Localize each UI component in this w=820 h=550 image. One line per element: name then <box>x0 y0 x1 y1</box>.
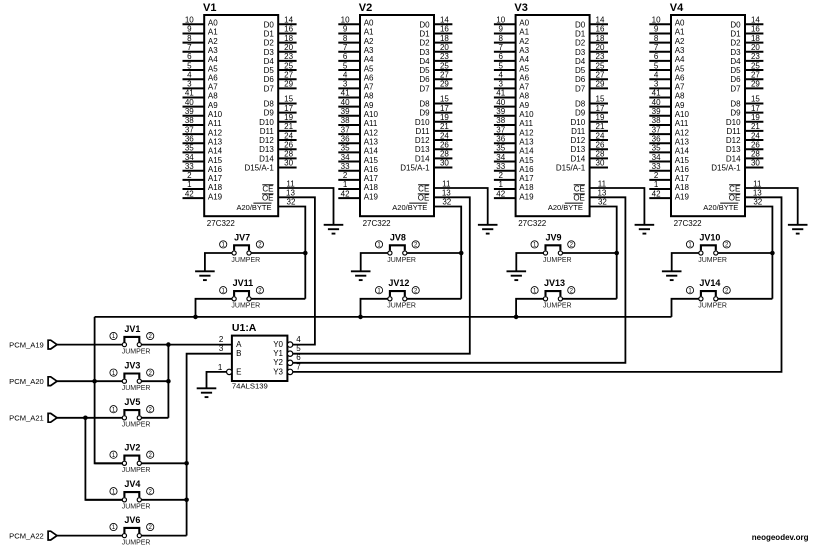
svg-text:V3: V3 <box>514 2 527 14</box>
svg-text:JV9: JV9 <box>546 232 562 242</box>
input port PCM_A20 <box>48 377 57 386</box>
wire JV2 to B-net vertical <box>141 462 187 464</box>
ground at E of U1 <box>197 388 217 397</box>
wire A-net vertical JV1/JV3/JV5 <box>167 345 169 418</box>
input port PCM_A19 <box>48 340 57 349</box>
wire A20/BYTE pin32 of V4 down to jumpers <box>745 207 772 299</box>
jumper JV4 <box>110 488 154 511</box>
wire A20/BYTE pin32 of V1 down to jumpers <box>278 207 305 299</box>
jumper JV11 <box>220 287 264 310</box>
EPROM V4 27C322 <box>649 2 763 228</box>
junction node bus / JV12 drop <box>358 315 363 320</box>
svg-text:E: E <box>236 367 241 376</box>
jumper JV14 <box>686 287 730 310</box>
svg-text:PCM_A19: PCM_A19 <box>9 340 44 349</box>
EPROM V2 27C322 <box>338 2 452 228</box>
svg-text:JV11: JV11 <box>233 278 254 288</box>
wire input to JV6 <box>57 535 123 537</box>
wire Y1 of U1 to OE pin13 of V2 <box>293 197 470 353</box>
svg-text:JV3: JV3 <box>124 361 140 371</box>
svg-text:JV2: JV2 <box>124 443 140 453</box>
junction node bus / JV11 drop <box>193 315 198 320</box>
wire CE pin11 of V4 to ground <box>745 188 798 225</box>
junction node pin32 V2 / jumper row <box>459 251 464 256</box>
wire PCM_A21 vertical to JV4 <box>85 499 122 501</box>
svg-text:JV14: JV14 <box>699 278 720 288</box>
svg-text:5: 5 <box>296 344 301 353</box>
wire bus down PCM_A20 to JV2 <box>95 317 123 463</box>
junction node A-net / JV3 <box>166 379 171 384</box>
svg-text:Y3: Y3 <box>273 367 283 376</box>
svg-text:JV7: JV7 <box>234 232 250 242</box>
junction node B-net / JV2 <box>184 461 189 466</box>
jumper JV3 <box>110 369 154 392</box>
svg-text:B: B <box>236 349 241 358</box>
svg-text:JV4: JV4 <box>124 479 140 489</box>
wire CE pin11 of V2 to ground <box>434 188 488 225</box>
ground at JV10 <box>662 271 682 280</box>
wire JV4 to B-net vertical <box>141 499 187 501</box>
wire JV12 right pin to pin32 vertical <box>406 298 461 300</box>
wire JV13 right pin to pin32 vertical <box>562 298 617 300</box>
ground at CE of V3 <box>635 225 655 234</box>
wire JV14 right pin to pin32 vertical <box>717 298 772 300</box>
junction node PCM_A21 / JV4 vertical <box>83 416 88 421</box>
wire JV9 right pin to pin32 vertical <box>562 252 617 254</box>
svg-text:neogeodev.org: neogeodev.org <box>752 533 809 542</box>
wire JV3 to A-net vertical <box>141 380 169 382</box>
svg-text:V2: V2 <box>359 2 372 14</box>
EPROM V1 27C322 <box>183 2 297 228</box>
svg-text:JV5: JV5 <box>124 397 140 407</box>
wire JV10 right pin to pin32 vertical <box>717 252 772 254</box>
wire A20/BYTE pin32 of V2 down to jumpers <box>434 207 461 299</box>
junction node pin32 V1 / jumper row <box>303 251 308 256</box>
svg-text:Y0: Y0 <box>273 340 283 349</box>
EPROM V3 27C322 <box>494 2 608 228</box>
wire PCM_A20 vertical to JV2 <box>95 462 123 464</box>
wire Y3 of U1 to OE pin13 of V4 <box>293 197 782 372</box>
jumper JV9 <box>531 241 575 264</box>
svg-text:PCM_A21: PCM_A21 <box>9 414 44 423</box>
svg-text:JV1: JV1 <box>124 324 140 334</box>
svg-text:7: 7 <box>296 362 301 371</box>
svg-text:Y2: Y2 <box>273 358 283 367</box>
ground at JV9 <box>507 271 527 280</box>
wire Y0 of U1 to OE pin13 of V1 <box>278 197 315 344</box>
wire JV5 to A-net vertical <box>141 417 169 419</box>
wire PCM_A21 down to JV4 <box>85 418 122 500</box>
wire PCM_A20 horizontal bus to JV11-JV14 <box>95 316 672 318</box>
junction node pin32 V4 / jumper row <box>770 251 775 256</box>
svg-text:JV12: JV12 <box>388 278 409 288</box>
jumper JV1 <box>110 332 154 355</box>
wire CE pin11 of V3 to ground <box>590 188 645 225</box>
jumper JV2 <box>110 451 154 474</box>
wire A20/BYTE pin32 of V3 down to jumpers <box>590 207 617 299</box>
jumper JV7 <box>220 241 264 264</box>
ground at CE of V4 <box>788 225 808 234</box>
ground at CE of V2 <box>478 225 498 234</box>
jumper JV13 <box>531 287 575 310</box>
junction node bus / JV13 drop <box>514 315 519 320</box>
wire JV11 right pin to pin32 vertical <box>251 298 306 300</box>
svg-text:A: A <box>236 340 242 349</box>
junction node pin32 V3 / jumper row <box>614 251 619 256</box>
svg-text:V4: V4 <box>670 2 684 14</box>
svg-text:U1:A: U1:A <box>232 322 257 334</box>
wire JV14 left pin to bus <box>672 299 700 317</box>
ground at CE of V1 <box>324 225 344 234</box>
svg-text:6: 6 <box>296 353 301 362</box>
jumper JV5 <box>110 406 154 429</box>
wire JV1 to U1 pin2 A <box>141 344 232 346</box>
junction node A-net / JV1 <box>166 342 171 347</box>
jumper JV8 <box>375 241 419 264</box>
svg-text:PCM_A20: PCM_A20 <box>9 377 44 386</box>
wire JV9 left pin to ground <box>516 253 544 271</box>
wire JV7 left pin to ground <box>205 253 233 271</box>
svg-text:Y1: Y1 <box>273 349 283 358</box>
wire JV6 to B-net vertical <box>141 535 187 537</box>
svg-text:3: 3 <box>219 344 224 353</box>
svg-text:JV6: JV6 <box>124 515 140 525</box>
wire JV7 right pin to pin32 vertical <box>251 252 306 254</box>
wire Y2 of U1 to OE pin13 of V3 <box>293 197 626 362</box>
decoder U1:A 74ALS139 <box>232 336 288 381</box>
svg-text:JV13: JV13 <box>544 278 565 288</box>
wire input to JV3 <box>57 380 123 382</box>
svg-text:V1: V1 <box>203 2 216 14</box>
svg-text:74ALS139: 74ALS139 <box>232 382 268 391</box>
wire input to JV1 <box>57 344 123 346</box>
wire JV8 right pin to pin32 vertical <box>406 252 461 254</box>
wire input to JV5 <box>57 417 123 419</box>
svg-text:4: 4 <box>296 335 301 344</box>
jumper JV12 <box>375 287 419 310</box>
wire JV11 left pin to bus <box>196 299 233 317</box>
wire CE pin11 of V1 to ground <box>278 188 333 225</box>
wire B-net vertical JV2/JV4/JV6 to U1 pin3 <box>187 354 232 536</box>
wire JV10 left pin to ground <box>672 253 700 271</box>
input port PCM_A22 <box>48 531 57 540</box>
wire JV12 left pin to bus <box>361 299 389 317</box>
junction node B-net / JV4 <box>184 498 189 503</box>
input port PCM_A21 <box>48 413 57 422</box>
ground at JV7 <box>195 271 215 280</box>
jumper JV10 <box>686 241 730 264</box>
svg-text:PCM_A22: PCM_A22 <box>9 531 44 540</box>
svg-text:JV8: JV8 <box>390 232 406 242</box>
svg-text:JV10: JV10 <box>699 232 720 242</box>
wire E of U1 to ground <box>207 372 227 388</box>
ground at JV8 <box>351 271 371 280</box>
svg-text:2: 2 <box>219 335 224 344</box>
junction node PCM_A20 / bus vertical <box>92 379 97 384</box>
wire JV8 left pin to ground <box>361 253 389 271</box>
wire JV13 left pin to bus <box>516 299 544 317</box>
svg-text:1: 1 <box>218 363 223 372</box>
jumper JV6 <box>110 523 154 546</box>
